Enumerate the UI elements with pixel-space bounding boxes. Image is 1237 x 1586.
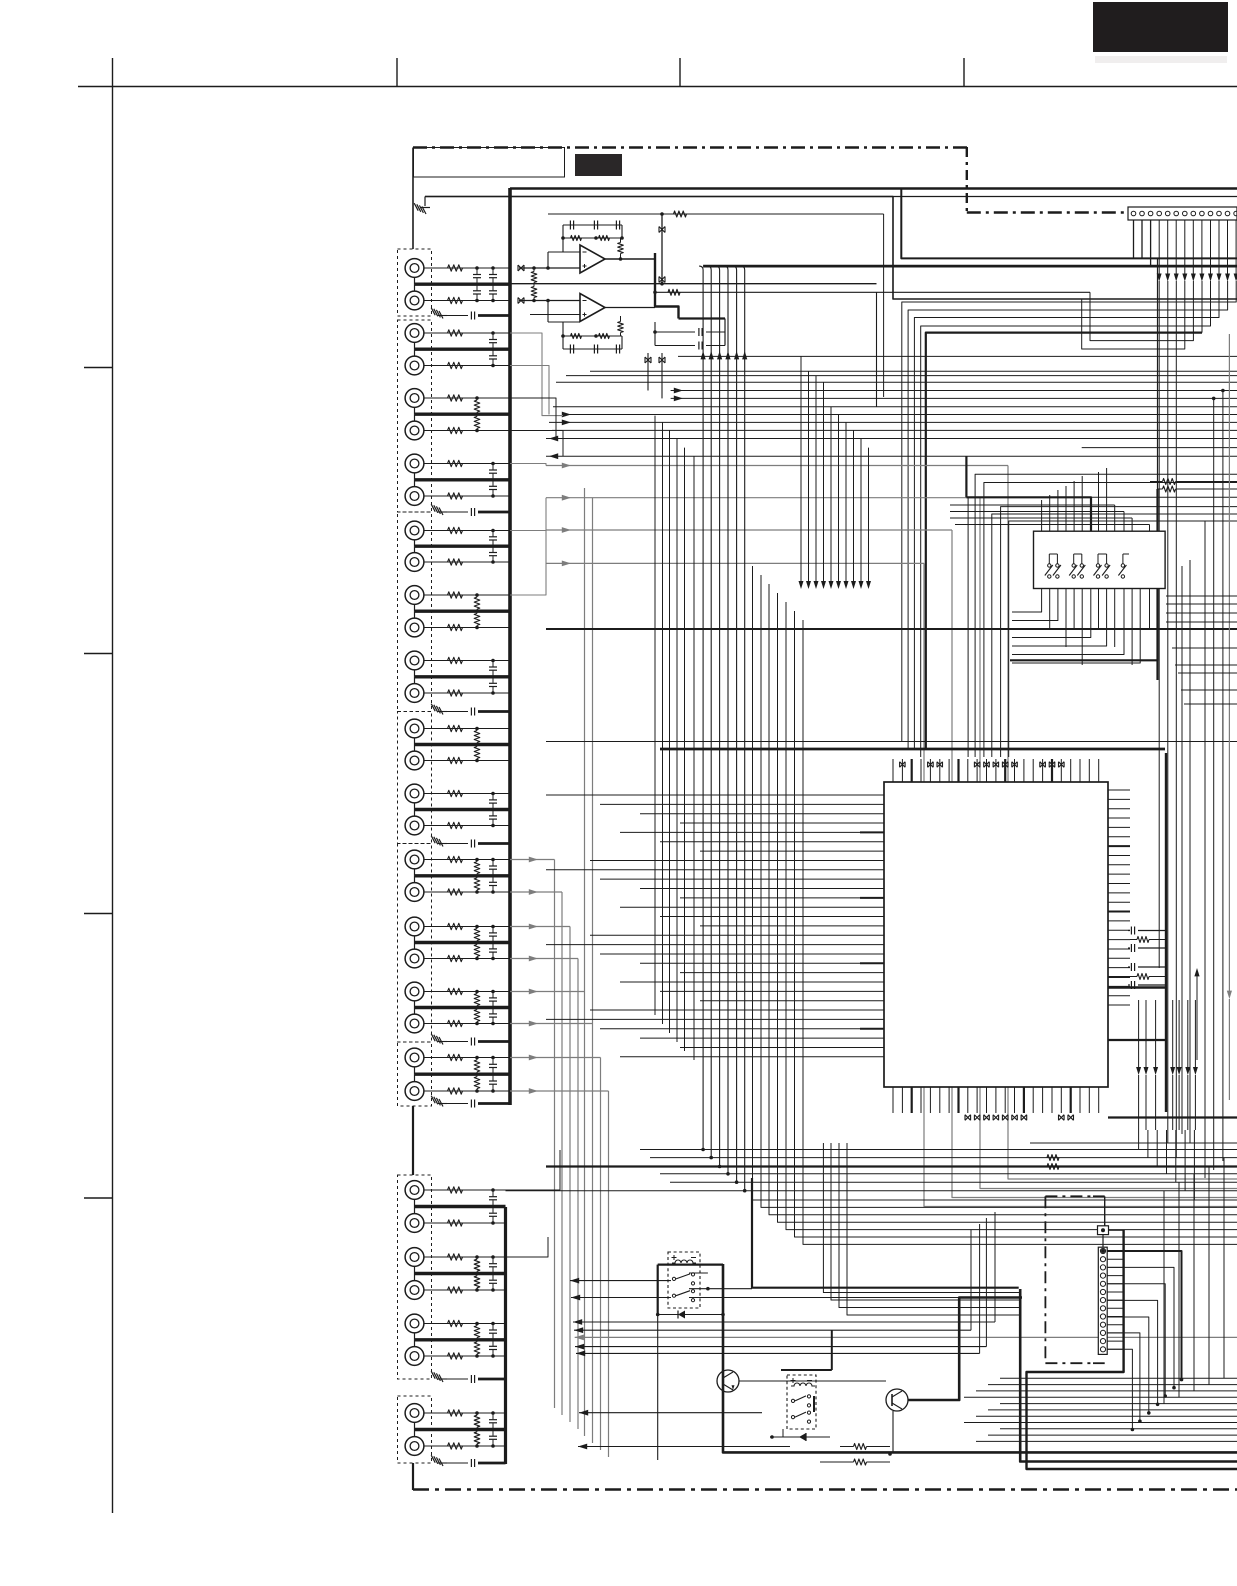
connector CN_top xyxy=(1128,207,1237,220)
IC U1 xyxy=(884,782,1108,1087)
resistor R43 xyxy=(448,1254,463,1260)
resistor R11 xyxy=(448,527,463,533)
wire xyxy=(414,1266,416,1273)
wire xyxy=(414,1001,416,1008)
wire xyxy=(414,1422,416,1429)
wire xyxy=(414,342,416,349)
resistor R13 xyxy=(448,592,463,598)
resistor Rc1 xyxy=(1047,1155,1059,1161)
wire xyxy=(424,891,510,893)
capacitor C15 xyxy=(489,865,497,867)
resistor R18 xyxy=(448,690,463,696)
wire xyxy=(424,825,510,827)
thick row B xyxy=(752,1178,1019,1288)
resistor R7 xyxy=(474,400,480,412)
capacitor C25 xyxy=(489,1263,497,1265)
wire xyxy=(414,407,416,414)
ground bar xyxy=(415,283,511,286)
resistor R9 xyxy=(448,460,463,466)
wire y741 xyxy=(546,741,1237,743)
RCA jack J3 xyxy=(405,324,424,343)
connector group box xyxy=(398,512,432,712)
wire xyxy=(424,859,510,861)
RCA jack J24 xyxy=(405,1014,424,1033)
resistor R16 xyxy=(474,613,480,625)
ground bar xyxy=(415,1006,511,1009)
capacitor C38 xyxy=(447,1462,468,1464)
wire xyxy=(424,430,510,432)
wire xyxy=(424,267,510,269)
row y326 xyxy=(921,281,1211,757)
capacitor C35 xyxy=(447,1041,468,1043)
resistor R40 xyxy=(474,1077,480,1089)
wire xyxy=(478,710,510,713)
rail y196 corner xyxy=(425,197,1237,300)
capacitor C30 xyxy=(489,1435,497,1437)
capacitor C20 xyxy=(489,1013,497,1015)
capacitor C21 xyxy=(489,1063,497,1065)
wire y292 xyxy=(653,282,1090,295)
capacitor C27 xyxy=(489,1329,497,1331)
RCA jack J33 xyxy=(405,1404,424,1423)
ground xyxy=(431,1034,443,1045)
thick drop into SW1 xyxy=(1156,489,1158,531)
RCA jack J27 xyxy=(405,1181,424,1200)
wire xyxy=(424,1256,506,1258)
switch contact S2 xyxy=(1056,564,1059,567)
RCA jack J26 xyxy=(405,1082,424,1101)
gray risers xyxy=(585,488,593,1024)
feedback network below IC1b xyxy=(548,316,623,354)
wire xyxy=(414,1333,416,1340)
switch contact S4 xyxy=(1080,564,1083,567)
wire xyxy=(647,353,649,391)
ghost text xyxy=(1095,56,1227,63)
board outline xyxy=(413,147,1237,1490)
relay RY1 xyxy=(668,1252,700,1308)
wire xyxy=(424,793,510,795)
RCA jack J8 xyxy=(405,487,424,506)
capacitor C5 xyxy=(489,339,497,341)
wire xyxy=(478,314,510,317)
connector group box xyxy=(398,249,432,316)
thick rail under IC right xyxy=(1108,986,1166,988)
resistor R22 xyxy=(474,747,480,759)
RCA jack J18 xyxy=(405,816,424,835)
resistor R34 xyxy=(448,1020,463,1026)
ground bar xyxy=(415,743,511,746)
resistor Rb1 xyxy=(840,1444,890,1450)
resistor R47 xyxy=(448,1320,463,1326)
wire xyxy=(414,803,416,810)
gray rows xyxy=(546,463,1008,567)
capacitor C28 xyxy=(489,1345,497,1347)
wire op2 out xyxy=(605,307,655,309)
wire xyxy=(414,277,416,284)
wires out of SW1 xyxy=(1012,589,1150,666)
RCA jack J14 xyxy=(405,684,424,703)
ferrite bead xyxy=(659,357,665,363)
thick L xyxy=(1027,1230,1237,1469)
arrows on rows xyxy=(549,388,683,442)
RCA jack J11 xyxy=(405,586,424,605)
resistor R2 xyxy=(448,297,463,303)
connector group box xyxy=(398,844,432,1043)
row y349 xyxy=(1082,281,1185,349)
capacitor C8 xyxy=(489,485,497,487)
RCA jack J25 xyxy=(405,1048,424,1067)
resistor R26 xyxy=(448,889,463,895)
wire xyxy=(424,1289,506,1291)
connector group box xyxy=(398,712,432,844)
capacitor C34 xyxy=(447,843,468,845)
connector group box xyxy=(398,1175,432,1379)
RCA jack J10 xyxy=(405,553,424,572)
capacitor C10 xyxy=(489,552,497,554)
gray jack rows to bottom xyxy=(510,857,609,1457)
RCA jack J12 xyxy=(405,618,424,637)
wire bundle vertical eight xyxy=(753,566,1237,1244)
ground bar xyxy=(415,1072,511,1075)
thick rail y1117 xyxy=(1108,1116,1237,1118)
bus wire right v xyxy=(1165,753,1167,1112)
RCA jack J2 xyxy=(405,291,424,310)
bus wire op-out Z xyxy=(654,253,679,319)
ferrite bead xyxy=(518,265,524,271)
label black box xyxy=(575,154,622,176)
dotted-top verticals xyxy=(1212,389,1225,1170)
wire xyxy=(424,1355,506,1357)
wire op inputs xyxy=(519,252,580,322)
resistor R41 xyxy=(448,1187,463,1193)
resistor R51 xyxy=(448,1410,463,1416)
resistor R3 xyxy=(448,330,463,336)
IC U1 right pins xyxy=(1108,790,1130,1005)
RCA jack J34 xyxy=(405,1437,424,1456)
vertical feed with beads xyxy=(659,214,665,284)
ground bar xyxy=(415,610,511,613)
resistor R27 xyxy=(474,862,480,874)
ground xyxy=(424,197,426,207)
resistor R28 xyxy=(474,878,480,890)
thick row y332 xyxy=(926,281,1202,749)
gray right vertical xyxy=(1228,334,1230,994)
resistor R54 xyxy=(474,1432,480,1444)
staircase right xyxy=(1164,1158,1224,1404)
wire xyxy=(424,332,510,334)
wire y214 corner xyxy=(548,211,884,397)
ground bar xyxy=(415,348,511,351)
resistor R44 xyxy=(448,1287,463,1293)
resistor R42 xyxy=(448,1220,463,1226)
bends to IC top xyxy=(968,474,1237,757)
capacitor C12 xyxy=(489,682,497,684)
wire xyxy=(414,540,416,546)
resistor R6 xyxy=(448,427,463,433)
RCA jack J22 xyxy=(405,949,424,968)
ferrite bead xyxy=(645,357,651,363)
row y340 xyxy=(1090,281,1193,341)
capacitor C16 xyxy=(489,881,497,883)
IC U1 bottom pins xyxy=(893,1087,1099,1120)
wire xyxy=(424,1090,510,1092)
resistor R30 xyxy=(448,955,463,961)
resistor R46 xyxy=(474,1276,480,1288)
op-amp IC1b xyxy=(580,294,605,322)
thick stub xyxy=(965,456,967,497)
wire xyxy=(424,728,510,730)
capacitor C29 xyxy=(489,1419,497,1421)
wire xyxy=(424,365,510,367)
capacitor C9 xyxy=(489,536,497,538)
rows under CN_bot xyxy=(964,1378,1237,1441)
resistor R24 xyxy=(448,822,463,828)
switch contact S3 xyxy=(1072,564,1075,567)
board label box xyxy=(414,148,565,178)
resistor R35 xyxy=(474,994,480,1006)
feeder rows into IC left xyxy=(546,795,860,1057)
resistor R10 xyxy=(448,493,463,499)
ground bar xyxy=(415,1272,506,1275)
feedback network above IC1a xyxy=(548,221,624,261)
capacitor C18 xyxy=(489,948,497,950)
wire xyxy=(424,397,510,399)
resistor R50 xyxy=(474,1342,480,1354)
capacitor C37 xyxy=(447,1378,468,1380)
capacitor C7 xyxy=(489,469,497,471)
gray drop arrow xyxy=(1227,991,1232,1100)
wires around RY1 xyxy=(656,1265,959,1460)
resistor R15 xyxy=(474,597,480,609)
wire op1 out xyxy=(605,258,655,260)
capacitor C26 xyxy=(489,1279,497,1281)
wire xyxy=(414,869,416,876)
wire xyxy=(506,1237,549,1257)
wire xyxy=(424,627,510,629)
capacitor C33 xyxy=(447,711,468,713)
wire xyxy=(424,760,510,762)
wires around RY2 xyxy=(781,1330,832,1437)
bus wire xyxy=(510,187,1237,190)
connector group box xyxy=(398,320,432,512)
row y310 xyxy=(908,281,1228,749)
capacitor C1 xyxy=(473,274,481,276)
resistor R36 xyxy=(474,1010,480,1022)
up arrow xyxy=(1194,968,1199,1060)
ground bar xyxy=(415,413,511,416)
ground xyxy=(431,836,443,847)
bus wire y749 xyxy=(660,748,1165,751)
resistor R5 xyxy=(448,395,463,401)
resistor R14 xyxy=(448,624,463,630)
transistor Q2 xyxy=(886,1389,908,1411)
RCA jack J15 xyxy=(405,719,424,738)
capacitor C24 xyxy=(489,1212,497,1214)
gray bends down xyxy=(924,466,1237,1207)
resistor R52 xyxy=(448,1443,463,1449)
resistor R4 xyxy=(448,362,463,368)
diode D2 xyxy=(770,1433,830,1441)
wire xyxy=(478,1102,510,1105)
relay RY2 xyxy=(787,1375,816,1429)
ground xyxy=(431,308,443,319)
thick row into SW1 xyxy=(966,497,1091,531)
ground xyxy=(431,1371,443,1382)
wire xyxy=(412,1106,414,1175)
capacitor C6 xyxy=(489,355,497,357)
RCA jack J9 xyxy=(405,521,424,540)
resistor Ra1 xyxy=(1150,479,1237,485)
ground bar xyxy=(415,545,511,548)
RCA jack J20 xyxy=(405,883,424,902)
capacitor C31 xyxy=(447,315,468,317)
wire xyxy=(424,1057,510,1059)
thick loop relay1 xyxy=(723,1264,1237,1452)
wire xyxy=(424,958,510,960)
wire bundle horizontal xyxy=(546,356,1237,438)
wire xyxy=(424,660,510,662)
resistor Ra2 xyxy=(1158,486,1237,492)
RCA jack J5 xyxy=(405,389,424,408)
RCA jack J6 xyxy=(405,421,424,440)
wire xyxy=(661,353,663,398)
wire xyxy=(424,530,510,532)
capacitor C32 xyxy=(447,511,468,513)
right comb verticals xyxy=(1182,521,1205,1178)
connector group box xyxy=(398,1396,432,1463)
ground bar xyxy=(415,1428,506,1431)
wire xyxy=(414,473,416,480)
resistor R29 xyxy=(448,923,463,929)
RCA jack J28 xyxy=(405,1214,424,1233)
RCA jack J4 xyxy=(405,356,424,375)
RCA jack J29 xyxy=(405,1248,424,1267)
resistor R23 xyxy=(448,790,463,796)
wire bundle horizontal 2 xyxy=(546,448,1237,460)
four verticals to rows xyxy=(823,1143,1020,1315)
connector group box xyxy=(398,1042,432,1106)
switch contact S7 xyxy=(1121,564,1124,567)
wire xyxy=(478,511,510,514)
series caps right of IC xyxy=(1128,927,1166,990)
resistor R20 xyxy=(448,757,463,763)
title block xyxy=(1093,2,1228,52)
RCA jack J19 xyxy=(405,850,424,869)
capacitor C22 xyxy=(489,1080,497,1082)
arrow cluster below IC xyxy=(1136,1000,1198,1130)
thick right vertical xyxy=(1157,258,1159,489)
RCA jack J13 xyxy=(405,651,424,670)
row y1143 xyxy=(1030,1142,1237,1144)
wire xyxy=(424,1323,506,1325)
connector CN_bot xyxy=(1098,1226,1109,1355)
resistor R31 xyxy=(474,929,480,941)
ferrite bead xyxy=(518,298,524,304)
capacitor C2 xyxy=(473,290,481,292)
RCA jack J31 xyxy=(405,1314,424,1333)
jack feeds to rows xyxy=(510,333,563,595)
wire xyxy=(414,604,416,611)
switch contact S1 xyxy=(1048,564,1051,567)
wire xyxy=(424,300,510,302)
resistor R19 xyxy=(448,725,463,731)
resistor R8 xyxy=(474,416,480,428)
resistor R45 xyxy=(474,1259,480,1271)
row y317 xyxy=(914,281,1219,749)
wire xyxy=(424,1412,506,1414)
ground bar xyxy=(415,675,511,678)
switch contact S6 xyxy=(1105,564,1108,567)
wire xyxy=(424,926,510,928)
wire xyxy=(414,1199,416,1206)
IC U1 left pins xyxy=(860,795,884,1057)
capacitor C23 xyxy=(489,1196,497,1198)
wire xyxy=(414,936,416,943)
wire xyxy=(425,196,1237,198)
capacitor C36 xyxy=(447,1103,468,1105)
capacitor C4 xyxy=(489,290,497,292)
capacitor C17 xyxy=(489,932,497,934)
comb feed rows xyxy=(950,505,1150,525)
thick vertical A xyxy=(1020,1289,1237,1462)
RCA jack J7 xyxy=(405,454,424,473)
wire xyxy=(424,692,510,694)
resistor R32 xyxy=(474,945,480,957)
wire bundle from CN_top xyxy=(1134,220,1237,282)
wire xyxy=(424,991,510,993)
RCA jack J21 xyxy=(405,917,424,936)
wire xyxy=(506,1150,561,1190)
ground xyxy=(431,704,443,715)
diode D1 xyxy=(658,1311,725,1319)
resistor Rc2 xyxy=(1047,1164,1059,1170)
bus wire y629 xyxy=(546,628,1237,630)
resistor R17 xyxy=(448,657,463,663)
switch box SW1 xyxy=(1034,531,1166,588)
wire xyxy=(424,495,510,497)
resistor R49 xyxy=(474,1326,480,1338)
RCA jack J1 xyxy=(405,259,424,278)
RCA jack J30 xyxy=(405,1281,424,1300)
RCA jack J32 xyxy=(405,1347,424,1366)
resistor R1 xyxy=(448,265,463,271)
wire xyxy=(424,1023,510,1025)
capacitor C11 xyxy=(489,666,497,668)
ground bar xyxy=(415,478,511,481)
capacitor C14 xyxy=(489,815,497,817)
resistor Rb2 xyxy=(820,1452,892,1465)
wire xyxy=(424,463,510,465)
wires from CN_bot xyxy=(1103,1230,1124,1349)
wire xyxy=(478,1378,506,1381)
resistor divider xyxy=(531,266,537,302)
wire xyxy=(478,842,510,845)
wire bundle right bottom xyxy=(1139,1130,1195,1200)
bus wire y266 xyxy=(703,265,1237,268)
wire y283 xyxy=(510,283,877,285)
wire riser 876 xyxy=(876,292,878,407)
board outline segment xyxy=(1045,1196,1104,1363)
transistor Q1 xyxy=(717,1370,739,1392)
thick rail under IC right2 xyxy=(1108,1039,1166,1041)
capacitor C13 xyxy=(489,799,497,801)
RCA jack J16 xyxy=(405,751,424,770)
ground bar xyxy=(415,1338,506,1341)
resistor R25 xyxy=(448,856,463,862)
drop arrows xyxy=(799,356,872,589)
op-amp IC1a xyxy=(580,245,605,273)
Q2 collector thick xyxy=(908,1298,1022,1401)
